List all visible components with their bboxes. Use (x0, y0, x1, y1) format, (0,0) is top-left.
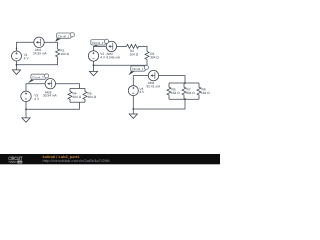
top bus c4 (169, 82, 199, 84)
svg-text:LAB: LAB (18, 161, 22, 164)
ground 4 (129, 109, 137, 118)
svg-text:30.94 mA: 30.94 mA (43, 94, 58, 98)
svg-text:4 V: 4 V (24, 56, 30, 60)
svg-text:164 Ω: 164 Ω (73, 95, 82, 99)
wire AM2 to R2 (117, 45, 127, 47)
flag Circuit_2 (91, 39, 109, 47)
svg-text:4 V: 4 V (140, 90, 146, 94)
ammeter AM3 (45, 79, 55, 89)
wire V3 top to AM3 (26, 84, 45, 92)
svg-text:164 Ω: 164 Ω (201, 91, 210, 95)
svg-text:24.39 mA: 24.39 mA (33, 52, 48, 56)
svg-text:304 Ω: 304 Ω (186, 91, 195, 95)
svg-text:164 Ω: 164 Ω (171, 91, 180, 95)
svg-text:Circuit_4: Circuit_4 (132, 67, 144, 71)
wire AM4 to bank (159, 76, 185, 83)
bottom bus c3 (70, 101, 85, 103)
logo LAB badge (17, 161, 22, 164)
resistor R4 (68, 88, 72, 102)
ground 3 (22, 109, 30, 122)
wire R3 bottom to V2 bottom (94, 59, 148, 65)
arrow mark on V1 wire (16, 47, 18, 49)
top bus c3 (70, 87, 85, 89)
svg-text:4 V: 4 V (100, 56, 106, 60)
wire V1 top to AM1 (17, 42, 34, 51)
ammeter AM4 (148, 70, 158, 80)
flag Circuit_3 (28, 74, 49, 83)
flag Circuit_4 (128, 65, 148, 75)
flag Circuit_1 (55, 33, 74, 42)
voltage source V2 (88, 51, 98, 61)
svg-text:Circuit_1: Circuit_1 (58, 34, 70, 38)
wire AM1 to R1 node (44, 41, 57, 43)
svg-text:304 Ω: 304 Ω (88, 95, 97, 99)
bottom bus c4 (169, 98, 199, 100)
wire bank to V4 bottom (133, 96, 185, 109)
svg-text:8.546 mA: 8.546 mA (106, 56, 121, 60)
junction below V1 (16, 64, 18, 66)
svg-text:Circuit_2: Circuit_2 (92, 41, 104, 45)
junction below V4 (132, 108, 134, 110)
junction below V2 (93, 64, 95, 66)
resistor R3 (145, 51, 149, 59)
svg-text:164 Ω: 164 Ω (60, 52, 69, 56)
wire V2 top to AM2 (94, 46, 107, 50)
voltage source V4 (128, 86, 138, 96)
wire R2 to R3 corner (139, 46, 148, 51)
svg-text:http://circuitlab.com/c/2a6b3a: http://circuitlab.com/c/2a6b3a7/298 (43, 159, 110, 163)
junction below V3 (25, 108, 27, 110)
svg-text:164 Ω: 164 Ω (130, 53, 139, 57)
resistor R2 (127, 44, 139, 48)
ground 1 (12, 65, 20, 75)
svg-text:Circuit_3: Circuit_3 (32, 76, 44, 80)
svg-text:82.41 mA: 82.41 mA (147, 84, 162, 88)
voltage source V3 (21, 91, 31, 101)
ground 2 (89, 65, 97, 76)
wire R1 bottom to V1 bottom (17, 57, 58, 65)
resistor R8 (197, 83, 201, 99)
wire AM3 to parallel pair (56, 84, 80, 89)
svg-text:4 V: 4 V (34, 97, 40, 101)
wire pair to V3 bottom (26, 101, 80, 109)
resistor R5 (83, 88, 87, 102)
junction bus c4 (184, 82, 186, 84)
resistor R7 (182, 83, 186, 99)
voltage source V1 (12, 51, 22, 61)
ammeter AM1 (34, 37, 44, 47)
svg-text:304 Ω: 304 Ω (150, 55, 159, 59)
resistor R1 (56, 42, 60, 57)
resistor R6 (167, 83, 171, 99)
watermark bar (0, 154, 220, 164)
ammeter AM2 (106, 41, 116, 51)
wire V4 top to AM4 (133, 76, 148, 86)
logo resistor squiggle (9, 161, 17, 163)
